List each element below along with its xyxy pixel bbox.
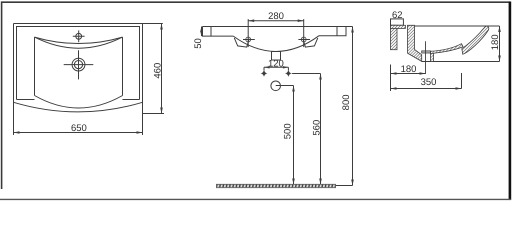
right mount hole arms	[298, 39, 310, 41]
svg-text:350: 350	[421, 77, 437, 88]
dim 560 line	[320, 74, 322, 185]
dim 280 left extension	[247, 19, 249, 47]
dim 460 top arrow	[160, 24, 163, 30]
floor level line right of strip	[336, 185, 353, 187]
drain spigot rect	[272, 52, 281, 61]
left wing bracket	[234, 38, 249, 47]
svg-text:280: 280	[268, 11, 284, 22]
dim 350 right arrow	[456, 87, 462, 90]
plan outer bow-front arc	[14, 102, 143, 112]
svg-text:120: 120	[268, 59, 284, 70]
dim 50 top arrow	[200, 27, 203, 32]
dim 50 bottom arrow	[200, 31, 203, 36]
deck right end cap	[319, 27, 346, 36]
back wall inner skin + left foot (hatched)	[408, 25, 422, 61]
drain centerline	[425, 41, 427, 74]
plan inner rim bottom-left segment	[17, 99, 35, 101]
dim 280 right arrow	[298, 19, 304, 22]
dim 280 right extension	[303, 19, 305, 47]
dim 800 top arrow	[351, 27, 354, 33]
dim 280 line	[248, 20, 304, 22]
dim 800 bottom arrow	[351, 180, 354, 186]
drain crosshair	[64, 50, 94, 79]
dim 350 line	[391, 88, 462, 90]
wall top box	[391, 19, 404, 25]
page border left	[1, 2, 3, 190]
dim 180h right arrow	[420, 72, 426, 75]
faucet hole circle	[76, 33, 82, 39]
svg-text:460: 460	[152, 63, 163, 79]
bowl top back arc 2	[35, 37, 123, 48]
dim 180h line	[391, 73, 426, 75]
drain inner circle	[74, 61, 82, 69]
dim 350 right extension	[461, 73, 463, 89]
bowl right edge	[122, 37, 124, 95]
page border right	[509, 2, 512, 201]
left wall-bolt star	[261, 70, 268, 77]
bowl floor strip (hatched)	[431, 44, 464, 54]
back wall outer skin (hatched)	[391, 25, 398, 49]
trap outlet circle	[271, 81, 281, 91]
plan outer left edge + 650 extension	[13, 24, 15, 136]
deck top line (extends right to 800 dim)	[203, 26, 353, 28]
dim 560 bottom arrow	[319, 179, 322, 185]
svg-text:500: 500	[283, 123, 294, 139]
bowl top back arc 1	[35, 37, 123, 43]
dim 50 line+arrows	[201, 27, 203, 37]
deck left end cap	[203, 27, 234, 37]
deck stub under box (hatched)	[391, 25, 406, 28]
dim 180 vertical line	[499, 26, 501, 62]
star to 560 connector	[292, 73, 320, 75]
dim 120 right arrow	[283, 66, 289, 68]
left mount hole circle	[246, 37, 251, 42]
svg-text:62: 62	[392, 10, 403, 21]
dim 650 line	[14, 132, 143, 134]
plan outer rim top edge (extends right to 460 dim)	[14, 23, 163, 25]
dim 120 left ext	[263, 67, 265, 70]
svg-text:800: 800	[341, 94, 352, 110]
dim 800 line	[352, 27, 354, 186]
plan outer right edge + 650 extension	[142, 24, 144, 136]
rim level line	[415, 25, 500, 27]
deck left cap inner line	[210, 27, 212, 37]
svg-text:50: 50	[193, 38, 204, 49]
dim 460 line	[161, 24, 163, 114]
page bottom rule	[0, 198, 511, 200]
right wall-bolt star	[285, 70, 292, 77]
dim 120 line	[264, 66, 288, 68]
dim 120 left arrow	[264, 66, 270, 68]
svg-text:560: 560	[311, 120, 322, 136]
dim 350 left arrow	[391, 87, 397, 90]
right foot (hatched)	[431, 52, 434, 62]
trap to 500 connector	[276, 85, 294, 87]
dim 500 top arrow	[292, 86, 295, 92]
plan inner rim bottom-right segment	[123, 99, 140, 101]
bowl front arc	[35, 96, 123, 109]
dim 650 right arrow	[137, 131, 143, 134]
dim 180h left extension	[390, 65, 392, 92]
bowl left edge	[34, 37, 36, 95]
deck right cap inner line	[336, 27, 338, 36]
drain outer circle	[72, 58, 85, 71]
dim 460 bottom extension	[143, 113, 165, 115]
dim 180v top arrow	[498, 26, 501, 32]
right mount hole circle	[301, 37, 306, 42]
dim 650 left arrow	[14, 131, 20, 134]
dim 460 bottom arrow	[160, 108, 163, 114]
dim 280 left arrow	[248, 19, 254, 22]
drain opening gray band	[422, 51, 431, 53]
dim 560 top arrow	[319, 74, 322, 80]
dim 180v bottom arrow	[498, 56, 501, 62]
dim 120 right ext	[287, 67, 289, 70]
plan inner rim line	[17, 27, 140, 100]
left mount hole arms	[243, 39, 255, 41]
basin bottom line	[422, 61, 500, 63]
dim 500 line	[293, 86, 295, 185]
svg-text:180: 180	[490, 34, 501, 50]
right wing bracket	[303, 38, 318, 47]
dim 500 bottom arrow	[292, 179, 295, 185]
front rim blade (hatched)	[462, 26, 489, 54]
apron bowl curve	[233, 36, 319, 52]
svg-text:180: 180	[401, 64, 417, 75]
page border top	[1, 1, 510, 3]
dim 180h left arrow	[391, 72, 397, 75]
svg-text:650: 650	[71, 123, 87, 134]
faucet hole crosshair	[73, 30, 85, 42]
floor hatched strip	[217, 184, 336, 187]
